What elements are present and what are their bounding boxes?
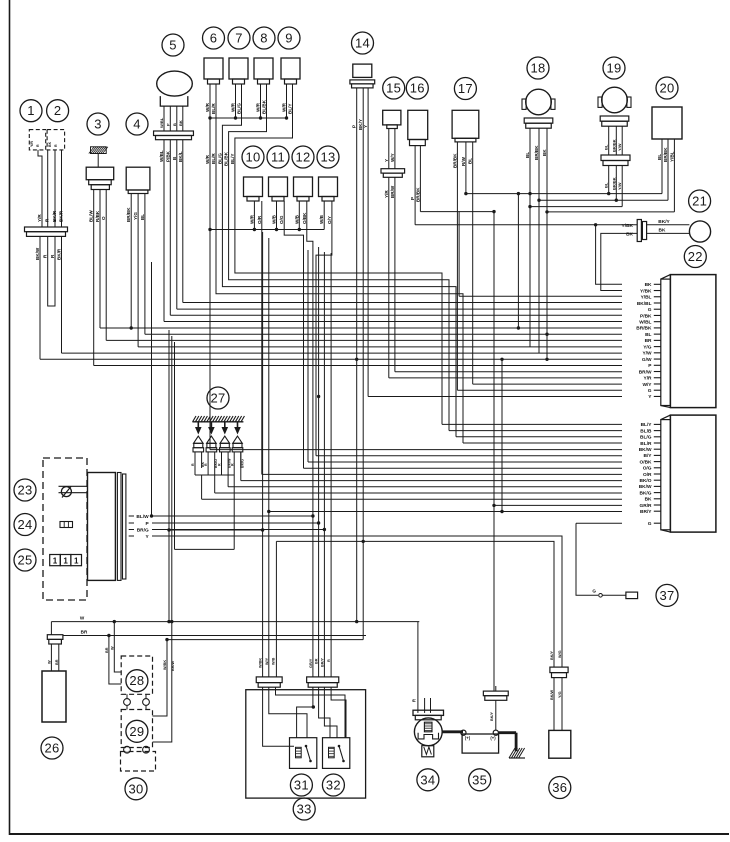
svg-text:21: 21 (692, 194, 707, 209)
svg-text:14: 14 (355, 36, 370, 51)
svg-text:W/Y: W/Y (642, 382, 652, 388)
svg-text:BK/R: BK/R (57, 248, 62, 260)
svg-text:13: 13 (320, 150, 335, 165)
svg-text:R: R (204, 463, 208, 466)
svg-text:28: 28 (129, 673, 144, 688)
svg-text:O/R: O/R (643, 472, 652, 478)
svg-text:Y: Y (384, 159, 389, 162)
svg-text:W/R: W/R (231, 102, 236, 112)
svg-text:W/B: W/B (272, 214, 277, 224)
svg-text:BR/W: BR/W (639, 369, 652, 375)
svg-text:6: 6 (210, 31, 218, 46)
svg-text:30: 30 (128, 781, 143, 796)
svg-text:33: 33 (297, 802, 312, 817)
svg-text:BL/BK: BL/BK (262, 99, 267, 114)
svg-text:Y/G: Y/G (558, 691, 562, 698)
svg-text:BL/G: BL/G (237, 103, 242, 114)
svg-text:24: 24 (17, 517, 32, 532)
svg-text:BL: BL (645, 332, 651, 338)
svg-text:Y/BL: Y/BL (669, 151, 674, 162)
svg-text:31: 31 (294, 778, 309, 793)
svg-text:BL: BL (140, 214, 145, 220)
svg-text:37: 37 (659, 588, 674, 603)
svg-text:BK/L: BK/L (178, 151, 183, 162)
svg-text:W/BL: W/BL (159, 117, 164, 128)
svg-text:P/BK: P/BK (640, 313, 652, 319)
svg-text:Y/BK: Y/BK (640, 288, 652, 294)
svg-text:R: R (191, 463, 195, 466)
svg-text:G: G (592, 589, 596, 594)
svg-text:Y/R: Y/R (30, 141, 34, 147)
svg-text:25: 25 (17, 553, 32, 568)
svg-text:W/R: W/R (205, 102, 210, 112)
svg-text:(+): (+) (490, 736, 496, 741)
svg-text:BR/Y: BR/Y (320, 657, 324, 667)
svg-text:BL/R: BL/R (640, 441, 652, 447)
svg-text:R/BK: R/BK (95, 210, 100, 222)
svg-text:BR/BK: BR/BK (415, 187, 420, 202)
svg-text:36: 36 (552, 780, 567, 795)
svg-text:BL/Y: BL/Y (230, 154, 235, 164)
svg-text:BR: BR (315, 658, 319, 664)
svg-text:BR/W: BR/W (171, 660, 175, 671)
svg-text:1: 1 (27, 103, 35, 118)
svg-text:1: 1 (74, 557, 79, 566)
svg-text:R: R (412, 699, 417, 702)
svg-text:W/B: W/B (294, 214, 299, 224)
svg-text:BR/BK: BR/BK (611, 139, 616, 152)
svg-text:Y/G: Y/G (643, 344, 652, 350)
svg-text:BL/W: BL/W (89, 210, 94, 222)
svg-text:R: R (327, 659, 331, 662)
svg-text:BK: BK (48, 141, 52, 147)
svg-text:BL/Y: BL/Y (288, 104, 293, 114)
svg-text:Y/BL: Y/BL (641, 295, 652, 301)
svg-text:16: 16 (410, 81, 425, 96)
svg-text:10: 10 (245, 150, 260, 165)
svg-text:BR: BR (81, 630, 88, 635)
svg-text:BK/Y: BK/Y (490, 711, 494, 721)
svg-text:Y/BK: Y/BK (622, 223, 634, 229)
svg-text:35: 35 (472, 772, 487, 787)
svg-text:G: G (648, 307, 652, 313)
svg-text:BK/W: BK/W (639, 447, 652, 453)
svg-text:GR/R: GR/R (640, 503, 653, 509)
svg-text:G: G (648, 521, 652, 527)
svg-text:O/G: O/G (279, 215, 284, 224)
svg-text:BK/R: BK/R (59, 210, 64, 222)
svg-text:W/Y: W/Y (390, 153, 395, 162)
svg-text:7: 7 (235, 31, 243, 46)
svg-text:BL/B: BL/B (640, 428, 652, 434)
svg-text:BK/G: BK/G (640, 490, 652, 496)
svg-text:W/BK: W/BK (259, 658, 263, 668)
svg-text:1: 1 (53, 557, 58, 566)
svg-text:BK: BK (201, 461, 205, 467)
svg-text:W: W (47, 660, 51, 664)
svg-text:O/R: O/R (257, 215, 262, 224)
svg-text:26: 26 (44, 741, 59, 756)
svg-text:Y/W: Y/W (617, 143, 622, 151)
svg-text:BR: BR (645, 338, 652, 344)
svg-text:BK/W: BK/W (35, 247, 40, 260)
svg-text:2: 2 (54, 103, 62, 118)
svg-text:GR/Y: GR/Y (309, 658, 313, 668)
svg-text:BL/G: BL/G (217, 153, 222, 164)
svg-text:34: 34 (420, 772, 435, 787)
svg-text:BK/O: BK/O (214, 459, 218, 468)
svg-text:BK/W: BK/W (227, 458, 231, 468)
svg-text:P: P (165, 123, 170, 126)
svg-text:BK/Y: BK/Y (658, 219, 670, 225)
svg-text:B/Y: B/Y (644, 453, 653, 459)
svg-text:Y: Y (363, 125, 368, 128)
svg-text:R: R (218, 463, 222, 466)
svg-text:15: 15 (386, 81, 401, 96)
svg-text:R: R (36, 144, 40, 147)
svg-text:BL: BL (604, 182, 609, 188)
svg-text:BR/BK: BR/BK (636, 326, 652, 332)
svg-text:1: 1 (63, 557, 68, 566)
svg-text:W: W (110, 646, 114, 650)
svg-text:BL/BK: BL/BK (224, 151, 229, 166)
svg-text:W/B: W/B (272, 657, 276, 665)
svg-text:W/Y: W/Y (265, 657, 269, 665)
svg-text:18: 18 (530, 61, 545, 76)
svg-text:O/Y: O/Y (327, 216, 332, 224)
svg-text:17: 17 (458, 81, 473, 96)
svg-text:BR/BK: BR/BK (452, 153, 457, 168)
svg-text:W: W (80, 616, 85, 621)
svg-text:(+): (+) (465, 736, 471, 741)
svg-text:BR: BR (55, 659, 59, 665)
svg-text:BL: BL (657, 154, 662, 160)
svg-text:BL/R: BL/R (211, 103, 216, 114)
svg-text:R: R (54, 144, 58, 147)
svg-text:P: P (410, 197, 415, 200)
svg-text:BK: BK (542, 149, 547, 156)
svg-text:G/W: G/W (642, 357, 652, 363)
svg-text:O/G: O/G (643, 466, 652, 472)
svg-text:BR/BK: BR/BK (663, 147, 668, 162)
svg-text:19: 19 (606, 61, 621, 76)
svg-text:BL/Y: BL/Y (641, 422, 653, 428)
svg-text:O: O (101, 216, 106, 220)
svg-text:BK/R: BK/R (52, 210, 57, 222)
svg-text:Y/R: Y/R (37, 214, 42, 222)
svg-text:W/BK: W/BK (163, 660, 167, 670)
svg-text:O/BK: O/BK (640, 459, 653, 465)
svg-text:BK: BK (659, 227, 666, 233)
svg-text:BK/W: BK/W (550, 689, 554, 700)
svg-text:BR: BR (105, 647, 109, 653)
svg-text:R/W: R/W (461, 156, 466, 166)
svg-text:BK/Y: BK/Y (550, 650, 554, 660)
svg-text:BR/BK: BR/BK (611, 177, 616, 190)
svg-text:BL/W: BL/W (136, 514, 149, 520)
svg-text:P: P (352, 125, 357, 128)
svg-text:O/BK: O/BK (302, 212, 307, 224)
svg-text:32: 32 (326, 778, 341, 793)
svg-text:BL: BL (525, 152, 530, 158)
svg-text:12: 12 (295, 150, 310, 165)
svg-text:BK/O: BK/O (640, 478, 652, 484)
svg-text:BK: BK (645, 497, 652, 503)
svg-text:BL: BL (604, 144, 609, 150)
svg-text:BK: BK (178, 120, 183, 126)
svg-text:5: 5 (169, 38, 177, 53)
svg-text:B: B (172, 123, 177, 126)
svg-text:W/G: W/G (558, 650, 562, 658)
svg-text:BL/G: BL/G (640, 435, 652, 441)
svg-text:W/R: W/R (249, 214, 254, 224)
svg-text:29: 29 (129, 724, 144, 739)
svg-text:BR/Y: BR/Y (640, 509, 652, 515)
svg-text:Y/R: Y/R (644, 376, 653, 382)
svg-text:BL/R: BL/R (211, 153, 216, 164)
svg-text:3: 3 (94, 117, 102, 132)
svg-text:20: 20 (659, 81, 674, 96)
svg-text:W/B: W/B (319, 214, 324, 224)
svg-text:BR/BK: BR/BK (534, 145, 539, 160)
svg-text:G: G (648, 388, 652, 394)
svg-text:Y/G: Y/G (133, 212, 138, 220)
svg-text:BK/W: BK/W (639, 484, 652, 490)
svg-text:W/BL: W/BL (639, 319, 651, 325)
svg-text:BK: BK (645, 282, 652, 288)
svg-text:23: 23 (17, 483, 32, 498)
svg-text:P/BK: P/BK (165, 150, 170, 162)
svg-text:9: 9 (285, 31, 293, 46)
svg-text:W/BL: W/BL (159, 150, 164, 162)
svg-text:11: 11 (271, 150, 285, 165)
svg-text:22: 22 (688, 249, 703, 264)
svg-text:BR/BK: BR/BK (126, 207, 131, 222)
svg-text:W/R: W/R (205, 154, 210, 164)
svg-text:W/R: W/R (256, 102, 261, 112)
svg-text:27: 27 (210, 391, 225, 406)
svg-text:BR/W: BR/W (390, 185, 395, 198)
svg-text:BK/BL: BK/BL (637, 301, 652, 307)
svg-text:BL: BL (468, 158, 473, 164)
svg-text:W/R: W/R (282, 102, 287, 112)
svg-text:BR/G: BR/G (137, 527, 149, 533)
svg-text:8: 8 (260, 31, 268, 46)
svg-text:BK: BK (626, 231, 633, 237)
svg-text:Y/W: Y/W (642, 351, 652, 357)
svg-text:4: 4 (133, 117, 141, 132)
svg-text:Y/W: Y/W (617, 182, 622, 190)
svg-text:Y/R: Y/R (384, 190, 389, 198)
